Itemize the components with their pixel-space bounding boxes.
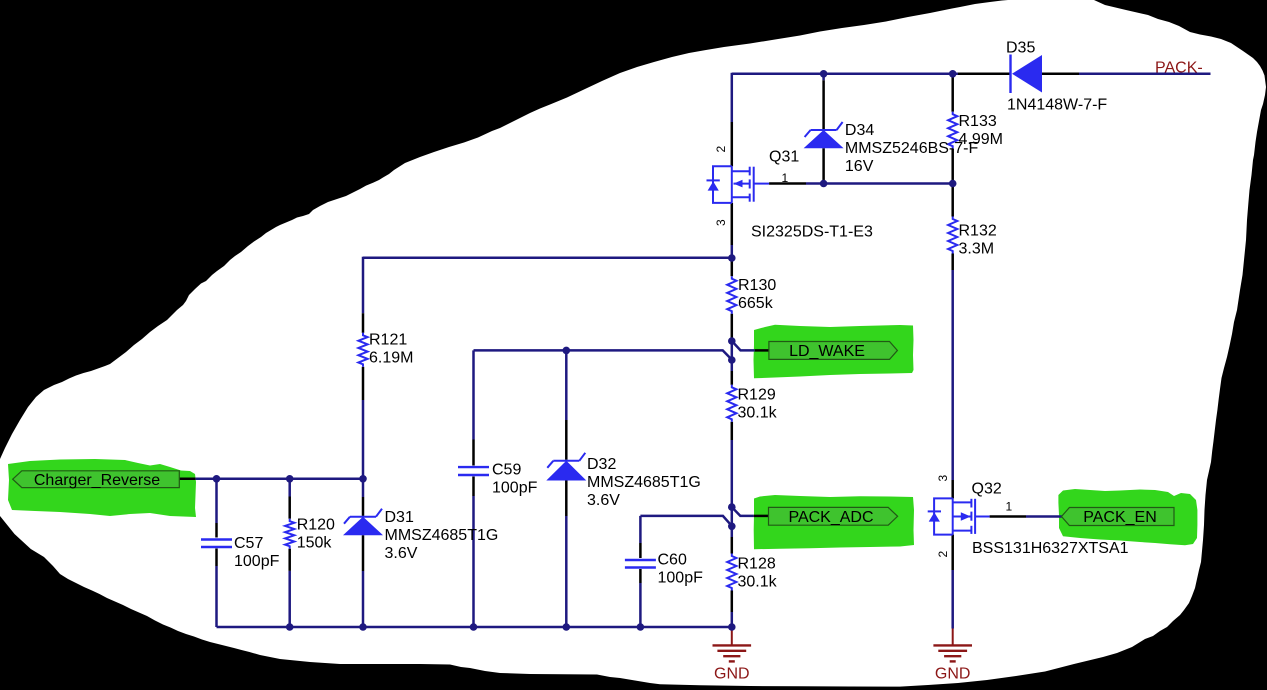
wire C59 branch — [472, 350, 475, 439]
svg-text:D34: D34 — [845, 122, 874, 139]
svg-text:C59: C59 — [492, 462, 521, 479]
svg-text:150k: 150k — [297, 535, 333, 552]
wire R129 pin leads — [731, 371, 734, 385]
svg-text:R121: R121 — [369, 332, 407, 349]
svg-text:PACK_EN: PACK_EN — [1083, 509, 1157, 526]
wire Q31 source pin lead — [731, 203, 734, 245]
wire between LD_WAKE node dots — [731, 341, 734, 360]
black mask top-left — [0, 0, 1008, 459]
wire R132 to Q32 drain — [951, 270, 954, 480]
wire R128 bottom to ground rail — [731, 612, 734, 627]
wire y516 row C60 to PACK_ADC lower node — [640, 516, 731, 526]
svg-text:3.6V: 3.6V — [385, 545, 418, 562]
port PACK_ADC — [769, 507, 898, 525]
resistor R129 — [727, 385, 736, 422]
svg-text:2: 2 — [714, 146, 728, 153]
highlight blob PACK_EN — [1058, 489, 1197, 545]
svg-text:3.6V: 3.6V — [587, 492, 620, 509]
wire D32 branch — [565, 350, 568, 420]
wire Q32 gate to PACK_EN — [1026, 515, 1063, 518]
svg-text:3: 3 — [936, 475, 950, 482]
wire below PACK_ADC lower dot — [731, 526, 734, 537]
wire Q31 drain pin lead — [731, 122, 734, 166]
svg-text:MMSZ5246BS-7-F: MMSZ5246BS-7-F — [845, 140, 979, 157]
svg-text:C57: C57 — [234, 535, 263, 552]
wire Q31 source to node — [731, 245, 734, 262]
svg-text:100pF: 100pF — [492, 480, 538, 497]
wire R121 top segment — [362, 257, 365, 314]
svg-text:D35: D35 — [1006, 40, 1035, 57]
resistor R132 — [948, 217, 957, 254]
wire below lower LD_WAKE dot — [731, 360, 734, 371]
wire Q31 drain from top rail — [731, 73, 734, 122]
resistor R133 — [948, 112, 957, 149]
ground GND left — [731, 627, 733, 645]
svg-text:R132: R132 — [959, 223, 997, 240]
svg-text:30.1k: 30.1k — [738, 574, 778, 591]
resistor R128 — [727, 554, 736, 591]
svg-text:3.3M: 3.3M — [959, 241, 995, 258]
svg-text:R120: R120 — [297, 517, 335, 534]
resistor R120 — [285, 519, 294, 549]
wire Q32 source to GND — [951, 535, 954, 570]
zener diode D31 — [350, 516, 376, 518]
wire bottom ground rail — [217, 626, 732, 629]
svg-text:GND: GND — [714, 666, 750, 683]
svg-text:100pF: 100pF — [234, 553, 280, 570]
svg-text:R133: R133 — [959, 113, 997, 130]
wire LD_WAKE tap pin lead — [755, 349, 769, 352]
wire LD_WAKE tap diagonal — [732, 341, 755, 350]
svg-text:PACK-: PACK- — [1155, 60, 1203, 77]
wire R128 pin leads — [731, 537, 734, 554]
wire C60 branch — [639, 516, 642, 543]
highlight blob PACK_ADC — [754, 495, 914, 549]
wire y258 row R121 to Q31 source node — [363, 256, 732, 259]
wire R132 pin leads — [951, 185, 954, 217]
svg-text:Q32: Q32 — [972, 481, 1002, 498]
wire pin1 row D34 to R133 node — [806, 182, 953, 185]
wire R120 branch — [288, 479, 291, 497]
wire PACK_ADC tap diagonal — [732, 507, 754, 516]
svg-text:R129: R129 — [738, 387, 776, 404]
zener diode D34 — [811, 129, 837, 131]
svg-text:665k: 665k — [738, 295, 774, 312]
junction dots — [213, 475, 221, 483]
highlight blob Charger_Reverse — [8, 459, 196, 517]
capacitor C59 — [458, 466, 489, 468]
transistor Q32 — [928, 498, 990, 534]
svg-text:16V: 16V — [845, 158, 874, 175]
svg-text:1N4148W-7-F: 1N4148W-7-F — [1007, 97, 1107, 114]
svg-text:SI2325DS-T1-E3: SI2325DS-T1-E3 — [751, 224, 873, 241]
wire C57 branch — [215, 478, 218, 523]
wire between PACK_ADC node dots — [731, 507, 734, 526]
svg-text:BSS131H6327XTSA1: BSS131H6327XTSA1 — [972, 540, 1129, 557]
wire Q31 gate pin lead — [769, 182, 806, 185]
zener diode D32 — [553, 460, 579, 462]
svg-text:Charger_Reverse: Charger_Reverse — [34, 472, 160, 489]
resistor R130 — [727, 276, 736, 314]
svg-text:6.19M: 6.19M — [369, 350, 413, 367]
port Charger_Reverse — [13, 471, 180, 488]
svg-text:MMSZ4685T1G: MMSZ4685T1G — [587, 474, 701, 491]
svg-text:2: 2 — [936, 551, 950, 558]
wire PACK_ADC tap pin lead — [754, 515, 769, 518]
svg-text:3: 3 — [714, 219, 728, 226]
svg-text:PACK_ADC: PACK_ADC — [788, 509, 873, 526]
wire Q32 gate pin lead — [990, 515, 1026, 518]
svg-text:30.1k: 30.1k — [738, 405, 778, 422]
wire Charger_Reverse pin lead — [179, 478, 195, 481]
svg-text:D32: D32 — [587, 456, 616, 473]
wire y350 row C59 to LD_WAKE lower node — [474, 350, 732, 359]
wire R121-D31 branch — [362, 313, 365, 333]
wire R130 pin leads — [731, 258, 734, 276]
capacitor C60 — [625, 559, 656, 561]
svg-text:100pF: 100pF — [658, 570, 704, 587]
highlight blob LD_WAKE — [754, 325, 914, 379]
resistor R121 — [358, 333, 367, 367]
port LD_WAKE — [769, 342, 898, 360]
capacitor C57 — [201, 538, 232, 540]
diode D35 — [1009, 55, 1011, 94]
svg-text:1: 1 — [782, 171, 789, 185]
wire top rail PACK- net — [732, 73, 958, 76]
transistor Q31 — [707, 166, 770, 203]
wire Charger_Reverse row — [196, 478, 363, 481]
wire D35 pin leads — [958, 73, 1011, 76]
port PACK_EN — [1062, 508, 1175, 526]
wire R133 pin leads — [951, 75, 954, 112]
svg-text:GND: GND — [935, 666, 971, 683]
wire top rail right of D35 — [1079, 73, 1211, 76]
svg-text:R128: R128 — [738, 556, 776, 573]
wire R129 bottom to PACK_ADC node — [731, 440, 734, 507]
svg-text:MMSZ4685T1G: MMSZ4685T1G — [385, 527, 499, 544]
svg-text:R130: R130 — [738, 277, 776, 294]
svg-text:D31: D31 — [385, 509, 414, 526]
wire R130 bottom to LD_WAKE node — [731, 338, 734, 341]
svg-text:1: 1 — [1006, 500, 1013, 514]
wire D34 pin leads — [822, 74, 825, 81]
ground GND right — [952, 629, 954, 646]
svg-text:C60: C60 — [658, 552, 687, 569]
svg-text:Q31: Q31 — [769, 149, 799, 166]
svg-text:LD_WAKE: LD_WAKE — [789, 343, 865, 360]
